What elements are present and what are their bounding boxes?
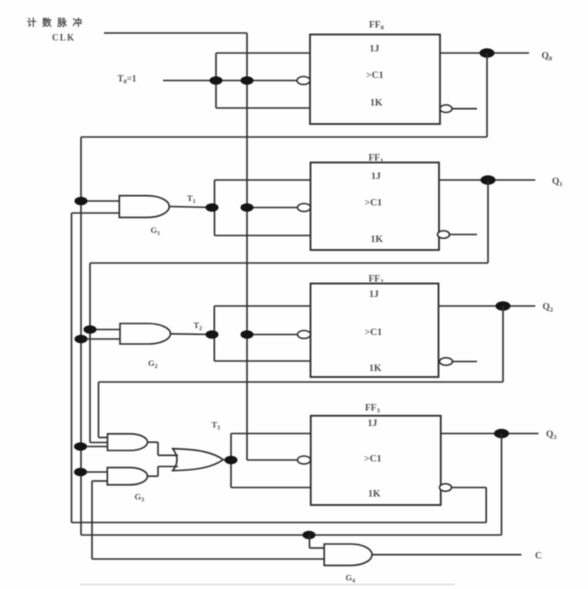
svg-text:1J: 1J: [368, 418, 378, 429]
svg-text:1K: 1K: [369, 363, 382, 374]
svg-text:1J: 1J: [371, 171, 381, 182]
svg-text:C: C: [535, 552, 542, 562]
svg-text:>C1: >C1: [366, 70, 384, 81]
svg-text:1K: 1K: [371, 234, 384, 245]
svg-text:CLK: CLK: [52, 33, 74, 43]
svg-text:>C1: >C1: [365, 198, 383, 209]
svg-text:1K: 1K: [370, 98, 383, 109]
svg-text:1J: 1J: [370, 44, 380, 55]
svg-text:1J: 1J: [369, 289, 379, 300]
svg-text:1K: 1K: [368, 489, 381, 500]
svg-text:>C1: >C1: [365, 327, 383, 338]
svg-text:>C1: >C1: [364, 454, 382, 465]
